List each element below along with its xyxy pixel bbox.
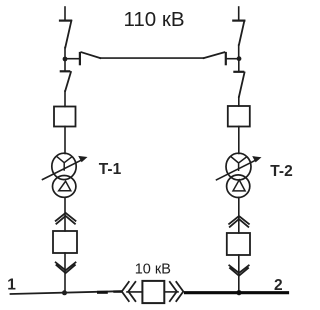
svg-text:T-2: T-2 <box>270 163 292 180</box>
wire (breaker Q2 to transformer T-2) <box>238 127 240 154</box>
transformer T-1 wye symbol <box>57 157 71 170</box>
transformer T-1 tap-changer arrow shaft <box>43 159 85 180</box>
svg-text:1: 1 <box>7 277 16 294</box>
wire (line 2 incoming terminal) <box>238 7 240 20</box>
circuit breaker Q3 (10 kV side, left) <box>53 231 77 253</box>
transformer T-2 tap-changer arrowhead <box>252 156 261 162</box>
disconnect switch QS2 fixed contact bar <box>233 20 244 22</box>
node A1 <box>63 57 68 62</box>
wire (breaker Q1 to transformer T-1) <box>64 127 66 154</box>
transformer T-2 secondary winding (delta) <box>227 175 250 198</box>
bus bar section 1 <box>11 291 122 294</box>
bus-tie circuit breaker Q5 <box>142 281 164 303</box>
wire (T-2 to drawout contacts) <box>238 197 240 233</box>
drawout contact chevrons (up) left <box>56 213 76 224</box>
node bus1 junction <box>62 290 67 295</box>
svg-text:110 кВ: 110 кВ <box>124 8 185 31</box>
transformer T-2 primary winding (Y) <box>226 153 251 180</box>
disconnect switch QS6 fixed contact bar <box>234 71 243 73</box>
disconnect switch QS2 blade <box>239 21 245 45</box>
wire (line 1 incoming terminal) <box>64 7 66 20</box>
drawout contact chevrons (down) right <box>229 265 248 275</box>
node A2 <box>237 56 242 61</box>
tie disconnect QS4 contact bar <box>225 53 227 64</box>
transformer T-1 secondary winding (delta) <box>52 176 75 198</box>
disconnect switch QS1 blade <box>65 21 71 48</box>
wire (blade to node A2) <box>238 45 240 59</box>
wire (T-1 to drawout contacts) <box>64 197 66 231</box>
svg-text:2: 2 <box>274 277 283 294</box>
transformer T-1 primary winding (Y) <box>52 153 76 179</box>
wire (blade to node A1) <box>64 48 66 60</box>
wire (tie switch to node A2) <box>227 58 239 60</box>
disconnect switch QS5 fixed contact bar <box>61 70 69 72</box>
disconnect switch QS6 blade <box>239 72 245 97</box>
wire (blade to breaker Q1) <box>64 91 66 107</box>
wire (bus-tie breaker to chevron) <box>164 291 178 293</box>
disconnect switch QS1 fixed contact bar <box>60 20 71 22</box>
bus-tie drawout chevrons (right) <box>170 282 184 301</box>
wire (node A1 to tie switch) <box>65 58 79 60</box>
disconnect switch QS5 blade <box>65 72 71 91</box>
wire (node A1 down) <box>64 59 66 71</box>
wire (blade to breaker Q2) <box>238 97 240 106</box>
bus bar section 2 <box>186 291 288 294</box>
circuit breaker Q2 <box>228 106 250 127</box>
transformer T-1 delta symbol <box>59 181 71 191</box>
transformer T-1 tap-changer arrowhead <box>78 156 87 162</box>
wire (tie line) <box>100 57 203 59</box>
svg-text:10 кВ: 10 кВ <box>135 261 171 277</box>
transformer T-2 tap-changer arrow shaft <box>217 159 259 180</box>
transformer T-2 wye symbol <box>231 157 245 170</box>
wire (node A2 down) <box>238 59 240 71</box>
tie disconnect QS3 contact bar <box>79 53 81 64</box>
wire (chevron to bus-tie breaker) <box>127 291 142 293</box>
node bus2 junction <box>236 290 241 295</box>
tie disconnect QS4 blade <box>204 52 225 58</box>
circuit breaker Q4 (10 kV side, right) <box>227 233 250 255</box>
transformer T-2 delta symbol <box>233 180 245 191</box>
circuit breaker Q1 <box>54 107 76 127</box>
wire (breaker Q4 to bus 2) <box>238 255 240 292</box>
wire (breaker Q3 to bus 1) <box>64 253 66 292</box>
svg-text:T-1: T-1 <box>99 161 122 178</box>
drawout contact chevrons (up) right <box>229 216 249 227</box>
bus-tie drawout chevrons (left) <box>122 282 136 301</box>
tie disconnect QS3 blade <box>81 52 100 58</box>
bus bar section 1 dark segment near chevron <box>115 290 121 292</box>
drawout contact chevrons (down) left <box>56 262 76 273</box>
bus bar section 1 thick dash <box>99 291 107 294</box>
